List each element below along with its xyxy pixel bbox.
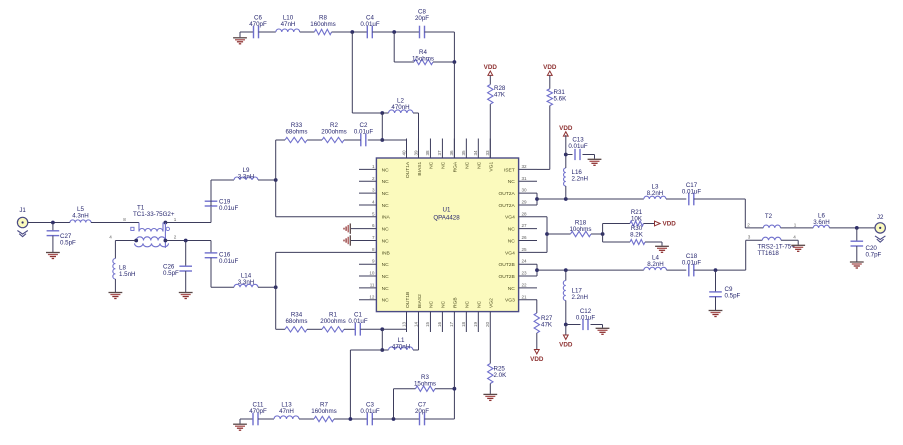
svg-text:NC: NC	[382, 262, 390, 268]
wire	[91, 222, 139, 224]
resistor R7 160ohms	[314, 416, 334, 421]
wire	[28, 222, 70, 224]
wire T1 right vertical	[164, 223, 166, 248]
pin 5 INA	[359, 216, 376, 218]
svg-text:0.01uF: 0.01uF	[360, 21, 379, 28]
resistor R2 200ohms	[322, 137, 344, 142]
svg-text:OUT2B: OUT2B	[498, 274, 514, 280]
svg-text:VDD: VDD	[484, 64, 498, 71]
wire	[259, 31, 276, 33]
svg-text:470pF: 470pF	[249, 21, 267, 28]
wire	[829, 227, 875, 229]
inductor L1 470nH	[389, 347, 414, 350]
svg-text:16: 16	[437, 321, 442, 327]
svg-text:200ohms: 200ohms	[320, 318, 345, 325]
svg-text:47nH: 47nH	[281, 21, 296, 28]
ground (bottom-left feedback chain)	[239, 419, 241, 424]
pin 19 NC	[477, 312, 479, 332]
wire	[307, 328, 322, 330]
wire	[344, 328, 355, 330]
pin 13 OUT1B	[406, 312, 408, 332]
wire	[644, 223, 655, 225]
wire down to pin 5	[275, 180, 277, 217]
junction L9 right	[274, 178, 278, 182]
power VDD (above R28)	[488, 71, 493, 75]
svg-text:VG4: VG4	[505, 215, 515, 221]
pin 1 NC	[359, 168, 376, 170]
junction C26	[184, 239, 188, 243]
svg-text:0.01uF: 0.01uF	[682, 189, 701, 196]
ground (T2 pin 4)	[797, 240, 799, 245]
wire	[591, 233, 603, 235]
wire to pin 36	[453, 62, 455, 158]
wire	[603, 241, 630, 243]
wire	[299, 418, 314, 420]
wire	[549, 75, 551, 88]
connector J1	[17, 217, 27, 227]
junction C12	[564, 323, 568, 327]
svg-text:J1: J1	[19, 207, 26, 214]
svg-text:6: 6	[372, 223, 375, 228]
wire to pin 13	[382, 328, 406, 330]
ground (C13)	[594, 155, 596, 159]
junction C3 right	[392, 417, 396, 421]
svg-text:0.5pF: 0.5pF	[725, 293, 741, 300]
pin 4 NC	[359, 204, 376, 206]
svg-text:10K: 10K	[631, 216, 643, 223]
ground (R25)	[483, 393, 497, 395]
wire	[425, 31, 455, 33]
svg-text:8.2nH: 8.2nH	[647, 190, 664, 197]
junction R18 right	[601, 232, 605, 236]
svg-text:INA: INA	[382, 215, 391, 221]
wire	[210, 201, 212, 223]
svg-text:NC: NC	[508, 227, 516, 233]
power VDD (below R27)	[534, 350, 539, 354]
svg-text:VG1: VG1	[489, 162, 495, 172]
svg-text:0.01uF: 0.01uF	[354, 129, 373, 136]
svg-text:4: 4	[793, 234, 796, 239]
wire	[360, 328, 382, 330]
ground pin 6 (sideways)	[349, 223, 351, 233]
wire	[114, 279, 116, 292]
capacitor C18 0.01uF	[688, 264, 690, 277]
svg-text:15: 15	[425, 321, 430, 327]
wire joining pins 24/23	[536, 264, 538, 276]
resistor R3 15ohms	[416, 386, 436, 391]
wire	[413, 112, 419, 114]
junction C2 right	[380, 138, 384, 142]
svg-text:14: 14	[413, 321, 418, 327]
op-amp U1 QPA4428 body	[376, 158, 518, 312]
wire	[307, 139, 322, 141]
capacitor C27 0.5pF	[52, 223, 54, 231]
phase mark square	[131, 227, 134, 230]
svg-text:NC: NC	[382, 203, 390, 209]
svg-text:NC: NC	[477, 161, 483, 169]
pin 8 INB	[359, 251, 376, 253]
wire	[537, 269, 644, 271]
wire to pin 40	[382, 139, 406, 141]
svg-text:NC: NC	[441, 161, 447, 169]
svg-text:23: 23	[522, 271, 528, 276]
power VDD (arrow right of R21)	[655, 221, 661, 226]
svg-text:4: 4	[372, 199, 375, 204]
junction R4/C8 right	[453, 60, 457, 64]
wire R3 branch	[393, 389, 395, 419]
svg-text:OUT2A: OUT2A	[498, 191, 515, 197]
wire up to pin 8	[275, 252, 277, 287]
svg-text:11: 11	[370, 282, 375, 287]
svg-text:0.01uF: 0.01uF	[219, 205, 238, 212]
resistor R1 200ohms	[322, 327, 344, 332]
resistor R25 2.0K	[488, 364, 493, 384]
svg-text:NC: NC	[465, 300, 471, 308]
capacitor C26 0.5pF	[185, 241, 187, 267]
wire to pin 33 VG1	[489, 104, 491, 158]
svg-text:160ohms: 160ohms	[311, 408, 336, 415]
ground (R30)	[661, 242, 663, 246]
pin 24 OUT2B	[519, 263, 537, 265]
pin 38 NC	[429, 139, 431, 159]
ground (L8)	[109, 292, 123, 294]
inductor L5 4.3nH	[70, 220, 91, 223]
junction C13	[564, 153, 568, 157]
junction L17 top	[564, 268, 568, 272]
inductor L2 470nH	[389, 110, 414, 113]
svg-text:7: 7	[372, 235, 375, 240]
svg-text:9: 9	[372, 259, 375, 264]
wire	[435, 388, 454, 390]
svg-text:OUT1B: OUT1B	[405, 292, 411, 308]
wire	[165, 222, 211, 224]
wire	[381, 113, 383, 140]
svg-text:NC: NC	[429, 161, 435, 169]
svg-text:NC: NC	[382, 191, 390, 197]
svg-text:0.01uF: 0.01uF	[360, 408, 379, 415]
power VDD (above R31)	[547, 71, 552, 75]
wire down to bottom chain	[349, 350, 351, 419]
capacitor C11 470pF	[252, 413, 254, 426]
pin 28 VG4	[519, 216, 547, 218]
svg-text:22: 22	[522, 282, 528, 287]
wire joining pins 30/29	[536, 193, 538, 205]
capacitor C2 0.01uF	[360, 134, 362, 147]
svg-text:TC1-33-75G2+: TC1-33-75G2+	[133, 211, 175, 218]
pin 36 RGA	[453, 139, 455, 159]
pin 15 NC	[429, 312, 431, 332]
wire	[276, 328, 285, 330]
capacitor C12 0.01uF	[566, 324, 581, 326]
svg-text:NC: NC	[508, 179, 516, 185]
svg-text:160ohms: 160ohms	[310, 21, 335, 28]
pin 10 NC	[359, 275, 376, 277]
wire	[300, 31, 315, 33]
pin 6 NC	[351, 228, 376, 230]
junction VG4	[545, 232, 549, 236]
svg-text:12: 12	[369, 294, 375, 299]
wire	[547, 233, 571, 235]
pin 20 VG2	[489, 312, 491, 332]
svg-text:8.2nH: 8.2nH	[647, 261, 664, 268]
svg-text:0.01uF: 0.01uF	[348, 318, 367, 325]
pin 31 NC	[519, 180, 537, 182]
svg-text:10ohms: 10ohms	[569, 226, 591, 233]
resistor R4 15ohms	[414, 59, 433, 64]
inductor L13 47nH	[274, 416, 299, 419]
node B junction	[392, 30, 396, 34]
svg-text:5: 5	[372, 211, 375, 216]
wire	[489, 75, 491, 84]
capacitor C4 0.01uF	[366, 26, 368, 39]
svg-text:1: 1	[794, 222, 797, 227]
pin 26 NC	[519, 240, 537, 242]
resistor R18 10ohms	[571, 231, 592, 236]
wire to pin 14	[418, 332, 420, 350]
resistor R31 5.6K	[547, 89, 552, 106]
svg-text:NC: NC	[382, 179, 390, 185]
svg-text:NC: NC	[382, 274, 390, 280]
capacitor C8 20pF	[419, 26, 421, 39]
svg-text:18: 18	[461, 321, 466, 327]
wire down to R34 row	[275, 287, 277, 329]
ground (C27)	[46, 252, 60, 254]
pin 2 NC	[359, 180, 376, 182]
pin 21 VG3	[519, 299, 537, 301]
pin 33 VG1	[489, 139, 491, 159]
inductor L4 8.2nH	[644, 267, 667, 270]
resistor R21 10K	[630, 221, 644, 226]
svg-text:ISET: ISET	[504, 167, 515, 173]
svg-text:3.6nH: 3.6nH	[813, 219, 830, 226]
ground pin 7 (sideways)	[349, 235, 351, 245]
svg-text:8: 8	[123, 217, 126, 222]
wire	[393, 32, 395, 62]
svg-text:0.01uF: 0.01uF	[219, 258, 238, 265]
wire pin 20	[489, 332, 491, 364]
svg-text:RGA: RGA	[453, 161, 459, 172]
svg-text:25: 25	[522, 247, 528, 252]
capacitor C17 0.01uF	[688, 193, 690, 206]
capacitor C1 0.01uF	[354, 323, 356, 336]
svg-text:NC: NC	[382, 238, 390, 244]
pin 22 NC	[519, 287, 537, 289]
wire	[694, 198, 746, 200]
resistor R28 47K	[488, 85, 493, 105]
junction L14 right	[274, 285, 278, 289]
svg-text:32: 32	[522, 164, 528, 169]
svg-text:BIAS1: BIAS1	[417, 162, 423, 176]
wire	[258, 179, 276, 181]
wire	[382, 112, 388, 114]
junction C9	[714, 268, 718, 272]
svg-text:3.3nH: 3.3nH	[238, 174, 255, 181]
svg-text:RGB: RGB	[453, 297, 459, 308]
junction bottom chain	[349, 417, 353, 421]
svg-text:15ohms: 15ohms	[412, 56, 434, 63]
svg-text:0.01uF: 0.01uF	[682, 260, 701, 267]
wire	[350, 349, 382, 351]
T2 primary winding	[745, 227, 763, 229]
inductor L10 47nH	[276, 29, 300, 32]
wire	[258, 286, 276, 288]
svg-text:5.6K: 5.6K	[554, 96, 568, 103]
ground (C9)	[709, 310, 723, 312]
wire	[211, 286, 234, 288]
svg-text:VG4: VG4	[505, 250, 515, 256]
junction C1 right	[380, 327, 384, 331]
svg-text:37: 37	[437, 150, 442, 156]
wire	[667, 269, 687, 271]
svg-text:NC: NC	[441, 300, 447, 308]
power VDD (below L17)	[565, 325, 567, 336]
svg-text:TT1618: TT1618	[758, 250, 780, 257]
ground (top-left feedback chain)	[239, 32, 241, 37]
svg-text:1.5nH: 1.5nH	[119, 271, 136, 278]
junction R3/C7 right	[453, 387, 457, 391]
inductor L17 2.2nH	[565, 270, 567, 280]
pin 23 OUT2B	[519, 275, 537, 277]
inductor L9 3.3nH	[234, 177, 258, 180]
wire	[433, 61, 454, 63]
wire	[694, 269, 746, 271]
pin 40 OUT1A	[406, 139, 408, 159]
svg-text:68ohms: 68ohms	[285, 318, 307, 325]
resistor R8 160ohms	[314, 29, 331, 34]
svg-text:30: 30	[522, 188, 528, 193]
svg-text:0.5pF: 0.5pF	[60, 240, 76, 247]
capacitor C20 0.7pF	[856, 228, 858, 241]
svg-text:0.5pF: 0.5pF	[163, 270, 179, 277]
svg-text:2.2nH: 2.2nH	[572, 176, 589, 183]
svg-text:4.3nH: 4.3nH	[72, 213, 89, 220]
svg-text:8: 8	[372, 247, 375, 252]
wire to pin 17	[453, 332, 455, 389]
wire	[240, 418, 253, 420]
wire	[536, 333, 538, 350]
svg-text:0.01uF: 0.01uF	[576, 315, 595, 322]
wire pin 21 VG3	[536, 299, 538, 301]
svg-text:1: 1	[174, 217, 177, 222]
T1 secondary winding	[136, 237, 165, 241]
wire	[165, 240, 211, 242]
wire	[372, 418, 419, 420]
svg-text:0.01uF: 0.01uF	[568, 143, 587, 150]
svg-text:19: 19	[473, 321, 478, 327]
wire	[276, 139, 285, 141]
wire up to R33 row	[275, 140, 277, 180]
svg-text:2.0K: 2.0K	[494, 372, 508, 379]
svg-text:QPA4428: QPA4428	[433, 214, 460, 221]
svg-text:VDD: VDD	[530, 356, 544, 363]
pin 7 NC	[351, 240, 376, 242]
node A junction	[350, 30, 354, 34]
svg-text:29: 29	[522, 199, 528, 204]
wire to INB pin 8	[276, 251, 359, 253]
wire	[489, 384, 491, 394]
svg-text:3: 3	[748, 234, 751, 239]
wire	[210, 241, 212, 253]
svg-text:NC: NC	[465, 161, 471, 169]
svg-text:13: 13	[401, 321, 406, 327]
svg-text:20pF: 20pF	[415, 15, 429, 22]
svg-text:200ohms: 200ohms	[321, 129, 346, 136]
resistor R30 8.2K	[630, 240, 645, 245]
capacitor C3 0.01uF	[366, 413, 368, 426]
pin 12 NC	[359, 299, 376, 301]
wire	[645, 241, 662, 243]
svg-text:20: 20	[485, 321, 490, 327]
svg-text:26: 26	[522, 235, 528, 240]
junction C27	[51, 221, 55, 225]
wire	[413, 349, 419, 351]
pin 32 ISET	[519, 168, 537, 170]
inductor L3 8.2nH	[644, 196, 666, 199]
svg-text:NC: NC	[382, 286, 390, 292]
svg-text:NC: NC	[508, 286, 516, 292]
capacitor C13 0.01uF	[566, 154, 573, 156]
capacitor C9 0.5pF	[715, 270, 717, 292]
junction	[134, 239, 138, 243]
svg-text:VG2: VG2	[489, 298, 495, 308]
inductor L14 3.3nH	[234, 284, 258, 287]
svg-text:27: 27	[522, 223, 528, 228]
wire	[537, 198, 644, 200]
wire up to T2	[745, 240, 747, 270]
pin 14 BIAS2	[417, 312, 419, 332]
wire to pin 32 ISET	[549, 106, 551, 170]
junction L2 left	[380, 111, 384, 115]
svg-text:2: 2	[372, 176, 375, 181]
wire	[211, 179, 234, 181]
ground (C20)	[850, 261, 864, 263]
svg-text:2: 2	[174, 234, 177, 239]
svg-text:28: 28	[522, 211, 528, 216]
svg-text:NC: NC	[382, 298, 390, 304]
svg-text:20pF: 20pF	[415, 408, 429, 415]
power VDD (above C13/L16)	[563, 132, 568, 136]
svg-text:68ohms: 68ohms	[285, 129, 307, 136]
svg-text:2: 2	[747, 222, 750, 227]
wire to INA pin 5	[276, 216, 359, 218]
svg-text:21: 21	[522, 294, 528, 299]
wire	[666, 198, 686, 200]
capacitor C6 470pF	[253, 26, 255, 39]
svg-text:470nH: 470nH	[391, 104, 409, 111]
svg-text:34: 34	[473, 150, 478, 156]
svg-text:VG3: VG3	[505, 298, 515, 304]
svg-text:10: 10	[369, 271, 375, 276]
ground (C26)	[179, 292, 193, 294]
pin 9 NC	[359, 263, 376, 265]
svg-text:INB: INB	[382, 250, 390, 256]
phase mark circle	[166, 227, 169, 230]
svg-text:VDD: VDD	[559, 341, 573, 348]
svg-text:VDD: VDD	[543, 64, 557, 71]
wire to pin 39	[418, 113, 420, 158]
wire	[602, 224, 604, 243]
svg-text:24: 24	[522, 259, 528, 264]
svg-text:OUT1A: OUT1A	[405, 161, 411, 178]
svg-text:470pF: 470pF	[249, 408, 267, 415]
inductor L6 3.6nH	[813, 225, 829, 228]
svg-text:4: 4	[109, 234, 112, 239]
wire	[368, 139, 383, 141]
pin 3 NC	[359, 192, 376, 194]
inductor L8 1.5nH	[113, 259, 116, 280]
svg-text:OUT2B: OUT2B	[498, 262, 514, 268]
resistor R33 68ohms	[285, 137, 307, 142]
